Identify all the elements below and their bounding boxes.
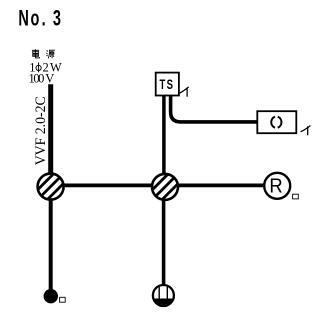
svg-text:100V: 100V [29,72,55,86]
svg-text:VVF 2.0-2C: VVF 2.0-2C [33,96,49,165]
svg-text:R: R [269,175,282,198]
svg-text:No.3: No.3 [18,6,61,31]
svg-text:TS: TS [160,76,174,92]
